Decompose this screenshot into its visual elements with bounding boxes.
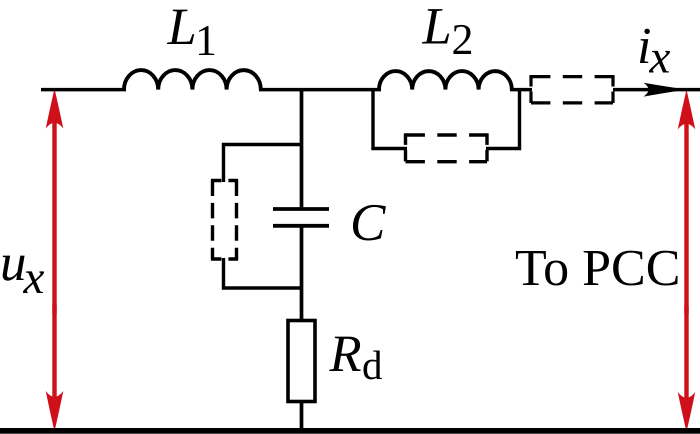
wire top-middle segment: [259, 88, 381, 92]
voltage arrow u_x (left, red, double-headed): [46, 89, 64, 432]
capacitor C plates: [273, 207, 329, 211]
svg-text:2: 2: [452, 15, 474, 64]
wire Rd to bottom rail: [300, 401, 304, 431]
wire middle vertical (junction to capacitor top plate): [300, 89, 304, 208]
svg-text:L: L: [167, 0, 197, 56]
inductor L2: [379, 71, 512, 90]
voltage arrow to PCC (right, red, double-headed): [678, 90, 696, 433]
svg-text:C: C: [350, 194, 386, 252]
parasitic resistance of C (parallel dashed box) with connecting wires: [211, 145, 302, 289]
svg-text:R: R: [329, 325, 362, 383]
wire top-right segment: [613, 88, 700, 92]
svg-text:d: d: [362, 342, 383, 388]
parasitic resistance of L2 (parallel dashed box) with connecting wires: [373, 89, 520, 163]
svg-text:x: x: [649, 32, 671, 84]
wire bottom rail: [0, 428, 700, 434]
svg-text:x: x: [23, 252, 45, 304]
wire top-left segment: [41, 88, 126, 92]
series parasitic dashed box (grid-side): [531, 75, 613, 105]
resistor Rd: [288, 321, 315, 402]
inductor L1: [124, 70, 261, 90]
svg-text:To PCC: To PCC: [515, 240, 680, 297]
wire from L2 to series parasitic box: [510, 88, 532, 92]
svg-text:L: L: [422, 0, 452, 56]
wire capacitor bottom plate to Rd: [300, 226, 304, 322]
svg-text:1: 1: [195, 16, 217, 65]
current arrowhead i_x: [644, 83, 687, 97]
